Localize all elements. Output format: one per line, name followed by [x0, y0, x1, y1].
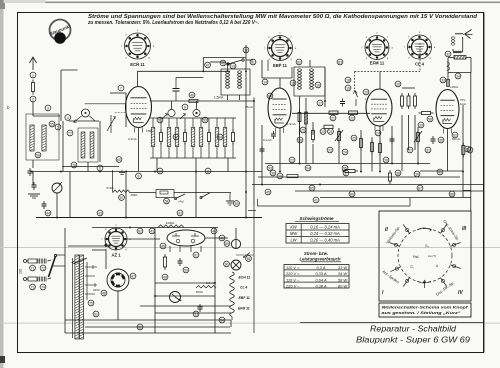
coil: [215, 118, 219, 158]
svg-text:80 W: 80 W: [338, 283, 347, 288]
table Leistungsverbrauch heading: [299, 251, 341, 262]
svg-text:220 V =: 220 V =: [285, 271, 300, 276]
antenna arrow: [30, 57, 37, 70]
node: [224, 261, 230, 267]
node: [305, 165, 311, 171]
node: [93, 311, 99, 317]
node: [417, 185, 423, 191]
wire: [214, 228, 216, 333]
coil: [304, 112, 307, 124]
svg-text:+250v: +250v: [450, 85, 459, 89]
svg-text:52: 52: [138, 325, 142, 329]
wire: [324, 68, 326, 107]
node: [137, 228, 143, 234]
svg-text:72: 72: [41, 266, 45, 270]
svg-text:36: 36: [271, 171, 275, 175]
tube socket CL 4 (top view): [404, 31, 436, 67]
svg-text:Reparatur - Schaltbild: Reparatur - Schaltbild: [370, 325, 456, 334]
resistor: [184, 118, 187, 158]
node: [427, 116, 433, 122]
node: [49, 121, 55, 127]
svg-text:53: 53: [203, 118, 207, 122]
junction dot: [68, 244, 110, 247]
svg-text:aus gesehen. / Stellung „Kurz“: aus gesehen. / Stellung „Kurz“: [382, 311, 461, 315]
tube socket AZ 1 (top view): [102, 224, 132, 258]
wire: [32, 171, 34, 185]
resistor: [389, 170, 392, 184]
svg-text:18: 18: [346, 78, 350, 82]
node: [182, 104, 188, 110]
node: [193, 252, 199, 258]
bus wire: [62, 166, 119, 168]
svg-text:Schwingströme: Schwingströme: [299, 216, 334, 221]
oscillator coil former: [168, 101, 175, 117]
transformer taps: [85, 265, 97, 294]
svg-text:88: 88: [450, 192, 454, 196]
wire: [117, 291, 119, 320]
title line: [300, 322, 483, 324]
IF coil: [225, 71, 229, 89]
bus wire: [295, 190, 483, 192]
ground: [226, 193, 234, 205]
wire: [338, 128, 340, 164]
node: [300, 127, 306, 133]
node: [327, 147, 333, 153]
variable resistor: [335, 129, 343, 144]
svg-text:83: 83: [338, 60, 342, 64]
node: [137, 324, 143, 330]
node: [297, 137, 303, 143]
bus wire: [320, 197, 471, 199]
svg-text:33: 33: [441, 78, 445, 82]
node: [149, 228, 155, 234]
svg-text:23: 23: [321, 130, 325, 134]
svg-text:14: 14: [263, 80, 267, 84]
svg-text:22: 22: [290, 158, 294, 162]
svg-text:0,33 A: 0,33 A: [315, 271, 327, 276]
wire: [253, 98, 255, 207]
wire: [300, 126, 314, 164]
node: [71, 162, 77, 168]
oscillator coil former 2: [193, 101, 200, 117]
svg-text:44: 44: [46, 211, 50, 215]
label 01mA: [263, 138, 272, 142]
node: [65, 115, 71, 121]
node: [289, 157, 295, 163]
node: [320, 129, 326, 135]
wire: [365, 98, 366, 100]
node: [395, 81, 401, 87]
svg-text:7: 7: [120, 86, 122, 90]
node: [440, 77, 446, 83]
svg-text:31: 31: [426, 148, 430, 152]
ground: [28, 194, 40, 198]
trimmer: [107, 115, 115, 133]
wire: [462, 105, 464, 198]
capacitor: [28, 168, 33, 176]
node: [452, 132, 458, 138]
wire: [228, 95, 240, 100]
output transformer: [454, 56, 466, 60]
tube CL 4: [436, 90, 459, 134]
label 220 rotated: [19, 268, 23, 274]
switch lever: [200, 193, 211, 199]
svg-text:2: 2: [32, 97, 34, 101]
svg-text:25: 25: [301, 128, 305, 132]
node: [101, 290, 107, 296]
resistor: [298, 110, 301, 125]
svg-text:220 V ~: 220 V ~: [285, 283, 300, 288]
IF transformer T1 box: [221, 69, 250, 95]
node: [296, 59, 302, 65]
svg-text:33 W: 33 W: [338, 265, 347, 270]
dial roman numerals: [382, 226, 467, 296]
svg-text:34 W: 34 W: [338, 271, 347, 276]
coil: [223, 118, 227, 158]
node: [119, 195, 125, 201]
svg-text:91: 91: [194, 253, 198, 257]
capacitor: [390, 136, 395, 144]
node: [217, 134, 223, 140]
wire: [157, 158, 228, 172]
node: [345, 85, 351, 91]
node: [313, 197, 319, 203]
coil: [81, 132, 85, 158]
svg-text:110 V =: 110 V =: [286, 265, 300, 270]
wire: [62, 121, 64, 172]
node: [309, 185, 315, 191]
antenna coil 1: [30, 125, 34, 151]
svg-text:16: 16: [316, 83, 320, 87]
choke loops: [447, 62, 450, 71]
wire: [420, 170, 463, 172]
note text line 2: [87, 20, 259, 26]
svg-text:EFM 11: EFM 11: [370, 61, 385, 66]
svg-text:94: 94: [306, 166, 310, 170]
bus wire: [258, 176, 460, 178]
note text line 1: [88, 14, 478, 20]
node: [173, 134, 179, 140]
node: [230, 63, 236, 69]
label 600Ω: [196, 290, 203, 294]
resistor: [379, 141, 382, 156]
node: [337, 59, 343, 65]
pilot lamp: [231, 260, 241, 270]
svg-text:42: 42: [178, 211, 182, 215]
wire: [155, 282, 215, 284]
svg-text:86: 86: [350, 192, 354, 196]
svg-text:57: 57: [120, 196, 124, 200]
svg-text:28: 28: [384, 158, 388, 162]
dial box: [379, 211, 471, 301]
svg-text:2,1 mA: 2,1 mA: [206, 281, 215, 285]
wire: [265, 163, 430, 165]
bus wire: [258, 198, 411, 207]
svg-text:220V: 220V: [93, 288, 100, 292]
svg-text:35: 35: [439, 138, 443, 142]
node: [136, 173, 142, 179]
wire: [85, 326, 230, 328]
svg-text:52mA: 52mA: [452, 137, 460, 141]
tube socket EFM 11 (top view): [362, 32, 394, 66]
transformer outline: [73, 258, 87, 338]
svg-text:AZ 1: AZ 1: [111, 253, 121, 258]
coil: [90, 132, 94, 158]
svg-text:3: 3: [47, 106, 49, 110]
svg-text:Blaupunkt - Super 6 GW 69: Blaupunkt - Super 6 GW 69: [356, 336, 471, 345]
svg-text:EFM 11: EFM 11: [238, 307, 250, 311]
node: [465, 146, 471, 152]
wire: [300, 96, 314, 135]
wire: [246, 59, 253, 61]
node: [328, 129, 334, 135]
node: [243, 47, 249, 53]
svg-text:47: 47: [131, 274, 135, 278]
antenna coil 2: [42, 125, 46, 151]
node: [118, 85, 124, 91]
svg-text:90: 90: [225, 262, 229, 266]
capacitor: [271, 131, 276, 139]
svg-text:96: 96: [298, 138, 302, 142]
node: [189, 92, 195, 98]
svg-text:60: 60: [117, 158, 121, 162]
mains input upper: [24, 259, 52, 264]
grid lead dashed: [115, 112, 126, 114]
resistor: [160, 118, 163, 158]
svg-text:26: 26: [278, 174, 282, 178]
node: [343, 170, 349, 176]
svg-text:51: 51: [94, 312, 98, 316]
wire: [361, 130, 372, 172]
svg-text:37: 37: [344, 171, 348, 175]
antenna coil box: [26, 114, 59, 160]
svg-text:77: 77: [68, 131, 72, 135]
switch contacts: [162, 114, 186, 120]
svg-text:44: 44: [212, 229, 216, 233]
svg-text:1,5mA: 1,5mA: [214, 96, 224, 100]
node: [30, 265, 36, 271]
node: [395, 170, 401, 176]
rectifier tube AZ 1 (side view): [167, 230, 205, 252]
svg-text:38: 38: [396, 171, 400, 175]
scan mark: [0, 356, 5, 363]
capacitor: [431, 136, 436, 144]
svg-text:110 V ~: 110 V ~: [286, 277, 300, 282]
switch contact: [353, 90, 358, 106]
svg-text:71: 71: [31, 266, 35, 270]
wire: [32, 160, 34, 168]
wire: [87, 162, 89, 172]
node: [250, 59, 256, 65]
wire: [150, 117, 236, 119]
svg-text:61: 61: [468, 148, 472, 152]
svg-text:85: 85: [310, 186, 314, 190]
resistor: [329, 111, 338, 114]
svg-text:20: 20: [364, 90, 368, 94]
node: [162, 274, 168, 280]
node: [449, 191, 455, 197]
resistor (antenna series): [32, 80, 35, 95]
svg-text:IV: IV: [458, 290, 463, 296]
resistor: [371, 140, 374, 155]
dial contacts: [389, 224, 460, 286]
wire: [262, 77, 292, 79]
node: [383, 157, 389, 163]
wire: [105, 250, 107, 269]
svg-text:13: 13: [231, 64, 235, 68]
svg-text:6: 6: [99, 166, 101, 170]
coupling coil 2: [453, 51, 462, 53]
svg-text:1,9mA: 1,9mA: [287, 122, 296, 126]
title Blaupunkt-Super: [356, 336, 471, 345]
capacitor: [173, 78, 204, 102]
node: [445, 51, 451, 57]
mains dropper resistor: [158, 225, 184, 228]
wire: [137, 71, 139, 86]
svg-text:Au (?): Au (?): [428, 254, 436, 258]
voltage selector blade: [49, 254, 66, 277]
power transformer winding S: [79, 255, 83, 339]
coil cluster box: [78, 128, 98, 162]
wire: [379, 72, 381, 90]
bus wire: [36, 217, 262, 219]
svg-text:50: 50: [184, 268, 188, 272]
node: [270, 170, 276, 176]
wire: [61, 70, 78, 121]
svg-text:400Ω: 400Ω: [131, 193, 138, 197]
resistor: [447, 80, 450, 87]
svg-text:34: 34: [456, 74, 460, 78]
wire: [56, 193, 58, 218]
wire: [203, 58, 246, 72]
svg-text:MW: MW: [290, 231, 298, 236]
svg-text:5: 5: [57, 125, 59, 129]
coil: [175, 118, 179, 158]
svg-text:220: 220: [19, 268, 23, 274]
svg-text:54: 54: [220, 318, 224, 322]
letter b margin: [7, 105, 10, 110]
svg-text:93: 93: [268, 166, 272, 170]
svg-text:0,16 — 0,24 mA: 0,16 — 0,24 mA: [310, 225, 340, 230]
capacitor: [178, 258, 183, 266]
svg-text:59: 59: [235, 202, 239, 206]
node: [265, 189, 271, 195]
volume potentiometer: [107, 186, 138, 197]
svg-text:84: 84: [268, 94, 272, 98]
resistor: [189, 99, 198, 102]
tube socket power (bottom view): [107, 269, 129, 291]
coil: [191, 118, 195, 158]
capacitor: [32, 182, 37, 190]
svg-text:EBF 11: EBF 11: [273, 63, 288, 68]
resistor: [324, 125, 333, 128]
capacitor: [260, 146, 265, 154]
dial caption box: [379, 303, 471, 317]
svg-text:9: 9: [184, 105, 186, 109]
IF coil: [297, 69, 301, 90]
node: [130, 273, 136, 279]
node: [342, 165, 348, 171]
svg-text:Pad.: Pad.: [413, 255, 420, 259]
resistor: [360, 136, 363, 151]
svg-text:5=kΩ: 5=kΩ: [107, 186, 115, 190]
dashed AVC line: [355, 43, 421, 72]
wire: [140, 305, 231, 307]
wire: [33, 115, 60, 117]
label CL 4: [240, 286, 247, 290]
node: [97, 210, 103, 216]
IF transformer T2 box: [294, 67, 325, 96]
label EBF 11: [239, 296, 250, 300]
wire: [138, 70, 231, 72]
node: [157, 117, 163, 123]
node: [437, 169, 443, 175]
wire: [195, 172, 197, 218]
svg-text:1: 1: [32, 73, 34, 77]
svg-text:55: 55: [247, 257, 251, 261]
resistor: [401, 93, 404, 109]
resistor: [342, 169, 358, 172]
tube socket EBF 11 (top view): [264, 32, 297, 69]
node: [205, 62, 211, 68]
dial lamp: [231, 228, 240, 249]
label 220V: [93, 288, 100, 292]
svg-text:600Ω: 600Ω: [196, 290, 203, 294]
svg-text:39: 39: [415, 172, 419, 176]
node: [467, 147, 473, 153]
svg-text:22: 22: [350, 116, 354, 120]
svg-text:55: 55: [50, 122, 54, 126]
svg-text:73: 73: [31, 285, 35, 289]
wire: [470, 73, 472, 212]
wire: [85, 103, 126, 105]
node: [205, 168, 211, 174]
power section box: [65, 228, 231, 334]
label 52mA: [452, 137, 460, 141]
node: [262, 79, 268, 85]
node: [349, 191, 355, 197]
wire: [245, 45, 247, 218]
wire: [138, 128, 140, 171]
svg-text:8: 8: [138, 174, 140, 178]
svg-text:ECH 11: ECH 11: [239, 276, 251, 280]
svg-text:27: 27: [376, 131, 380, 135]
table Leistungsverbrauch: [284, 265, 349, 289]
label 70V 1mA: [460, 98, 466, 106]
svg-text:29: 29: [396, 82, 400, 86]
node: [45, 105, 51, 111]
wire: [150, 100, 254, 102]
antenna coupling coil: [455, 33, 465, 34]
node: [267, 165, 273, 171]
wire: [155, 295, 215, 297]
node: [277, 173, 283, 179]
svg-text:45: 45: [161, 244, 165, 248]
wire: [230, 320, 232, 327]
svg-text:0,3 A: 0,3 A: [317, 265, 326, 270]
title Reparatur-Schaltbild: [370, 325, 456, 334]
label 0,3mA: [128, 137, 137, 141]
mains input lower: [24, 277, 52, 282]
resistor: [232, 118, 235, 158]
wire: [391, 126, 393, 164]
table Schwingströme heading: [295, 216, 339, 221]
node: [220, 60, 226, 66]
selector arrow: [72, 258, 87, 264]
svg-text:+Pol: +Pol: [178, 200, 184, 204]
svg-text:0,3mA: 0,3mA: [128, 137, 137, 141]
node: [30, 96, 36, 102]
